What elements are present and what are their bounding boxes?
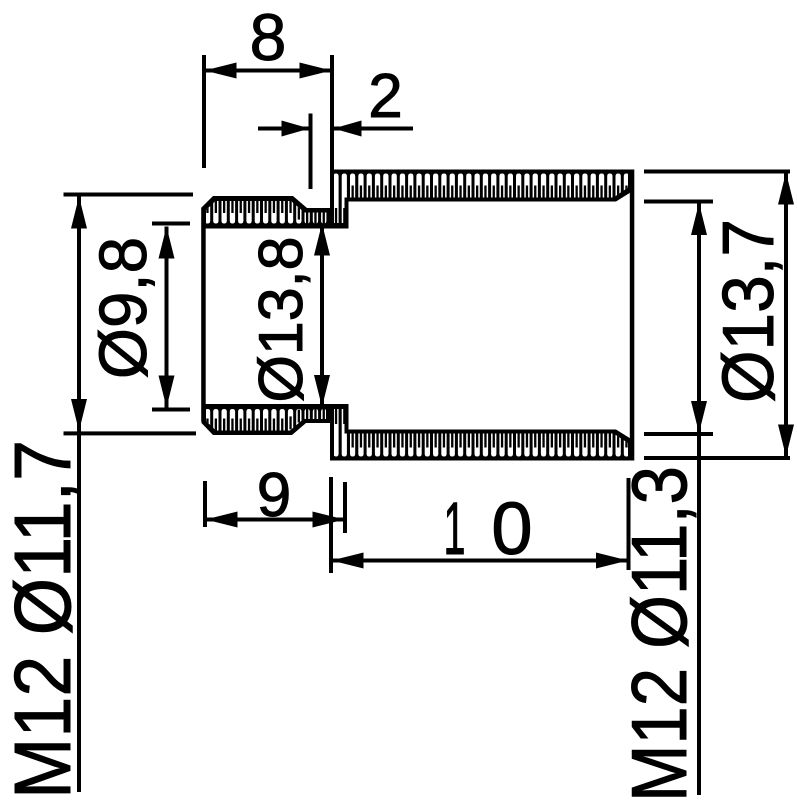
- dimension Ø13,7: dimension line with arrows: [784, 173, 788, 457]
- adapter body: right section top thread band: [330, 170, 632, 229]
- dimension M12 Ø11,3: extension line top: [644, 200, 713, 204]
- dimension 9: extension line left: [203, 481, 207, 527]
- dimension M12 Ø11,7: extension line bottom: [64, 431, 197, 435]
- adapter body: right section right end face line: [630, 170, 635, 461]
- dimension 10: extension line right: [627, 478, 631, 570]
- dimension M12 Ø11,3: dimension line with arrows: [697, 203, 701, 795]
- adapter body: left section bottom thread band: [202, 404, 331, 435]
- svg-text:Ø13,7: Ø13,7: [709, 219, 789, 403]
- svg-text:Ø13,8: Ø13,8: [247, 237, 316, 403]
- svg-text:2: 2: [368, 62, 402, 131]
- svg-text:Ø9,8: Ø9,8: [86, 237, 161, 379]
- dimension Ø9,8: extension line top: [152, 222, 190, 226]
- adapter body: right section bottom thread band: [330, 404, 632, 461]
- svg-text:M12 Ø11,7: M12 Ø11,7: [0, 440, 87, 799]
- dimension Ø9,8: extension line bottom: [152, 408, 190, 412]
- svg-text:M12 Ø11,3: M12 Ø11,3: [615, 466, 703, 800]
- dimension 9: extension line right (thread runout): [343, 482, 347, 533]
- dimension Ø13,7: extension line bottom: [644, 456, 790, 460]
- dimension 2: left leader with arrow: [258, 127, 309, 131]
- dimension 10: extension line left (junction face extended): [329, 477, 333, 573]
- dimension 8: extension line left: [202, 55, 206, 168]
- svg-text:8: 8: [250, 0, 287, 74]
- dimension 2: right leader with arrow: [334, 127, 413, 131]
- dimension 2: extension line: [309, 114, 313, 190]
- dimension M12 Ø11,7: extension line top: [64, 193, 194, 197]
- dimension Ø9,8: dimension line with arrows: [165, 227, 169, 408]
- dimension M12 Ø11,3: extension line bottom: [644, 432, 713, 436]
- svg-text:1: 1: [444, 487, 466, 570]
- dimension 8: dimension line with arrows: [204, 69, 332, 73]
- dimension Ø13,7: extension line top: [644, 170, 790, 174]
- adapter body: left section top thread band: [202, 196, 331, 229]
- dimension M12 Ø11,7: dimension line with arrows: [77, 197, 81, 793]
- dimension Ø13,8: dimension line with arrows: [320, 224, 324, 408]
- svg-text:9: 9: [257, 461, 291, 530]
- svg-text:0: 0: [491, 487, 532, 570]
- dimension 9: dimension line with arrows: [205, 518, 345, 522]
- adapter body: left section left face line: [201, 208, 206, 422]
- dimension 10: dimension line with arrows: [331, 559, 629, 563]
- dimension 8: extension line right (junction face extended): [330, 55, 334, 171]
